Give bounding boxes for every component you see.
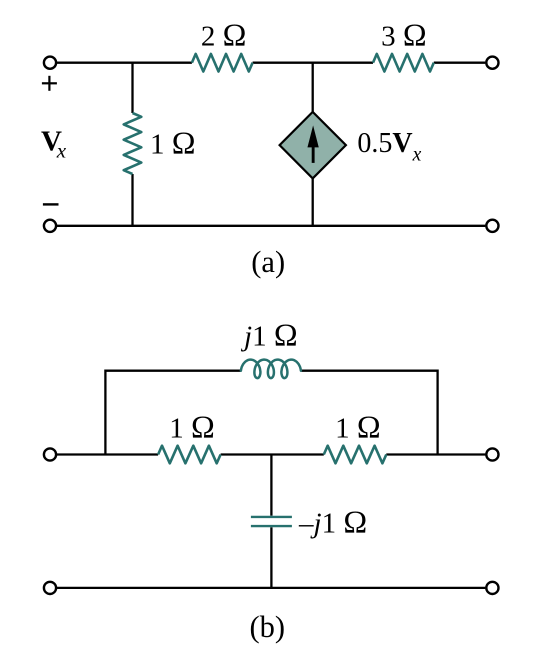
wire: bottom rail (a) <box>57 225 485 227</box>
wire: top rail middle segment between 2-ohm and 3-ohm (a) <box>253 62 373 64</box>
svg-text:1 Ω: 1 Ω <box>169 409 215 445</box>
resistor R 1-ohm (b right) <box>324 446 387 464</box>
wire: top-right segment from inductor and right riser (b) <box>301 371 438 455</box>
node: terminal bottom-right (b) <box>486 582 498 594</box>
wire: top rail right segment (a) <box>434 62 486 64</box>
node: terminal bottom-right (a) <box>486 220 498 232</box>
wire: middle rail right segment (b) <box>386 453 485 455</box>
svg-text:3 Ω: 3 Ω <box>381 17 427 53</box>
node: terminal bottom-left (b) <box>44 582 56 594</box>
wire: 1-ohm branch upper lead (a) <box>131 62 133 113</box>
resistor R 2-ohm (a top left) <box>192 54 253 72</box>
dependent current source U1 0.5Vx (diamond) <box>280 112 346 178</box>
svg-text:1 Ω: 1 Ω <box>335 409 381 445</box>
node: terminal top-right (a) <box>486 57 498 69</box>
node: terminal middle-right (b) <box>486 448 498 460</box>
svg-text:(b): (b) <box>250 610 286 644</box>
label: minus sign of Vx <box>43 203 59 205</box>
wire: left riser and top-left segment to inductor (b) <box>105 371 241 455</box>
wire: middle rail centre segment (b) <box>221 453 324 455</box>
svg-text:j1 Ω: j1 Ω <box>240 317 298 353</box>
wire: middle rail left segment (b) <box>57 453 158 455</box>
node: terminal top-left (a) <box>44 57 56 69</box>
wire: bottom rail (b) <box>57 587 485 589</box>
label: plus sign of Vx <box>42 76 57 91</box>
wire: source branch upper lead (a) <box>312 62 314 114</box>
resistor R 3-ohm (a top right) <box>373 54 434 72</box>
wire: 1-ohm branch lower lead (a) <box>131 174 133 227</box>
svg-text:(a): (a) <box>251 245 285 279</box>
svg-text:1 Ω: 1 Ω <box>150 125 196 161</box>
capacitor C -j1-ohm (b, plates) <box>251 517 292 526</box>
wire: top rail left segment (a) <box>57 62 192 64</box>
node: terminal middle-left (b) <box>44 448 56 460</box>
arrow of dependent current source (pointing up) <box>307 125 318 162</box>
svg-text:2 Ω: 2 Ω <box>201 17 247 53</box>
resistor R 1-ohm (b left) <box>158 446 221 464</box>
wire: capacitor upper lead (b) <box>270 455 272 516</box>
wire: capacitor lower lead (b) <box>270 527 272 588</box>
resistor R 1-ohm (a vertical) <box>124 113 142 174</box>
node: terminal bottom-left (a) <box>44 220 56 232</box>
svg-text:–j1 Ω: –j1 Ω <box>298 503 367 539</box>
inductor L j1-ohm (b top branch) <box>241 360 301 379</box>
wire: source branch lower lead (a) <box>312 177 314 227</box>
